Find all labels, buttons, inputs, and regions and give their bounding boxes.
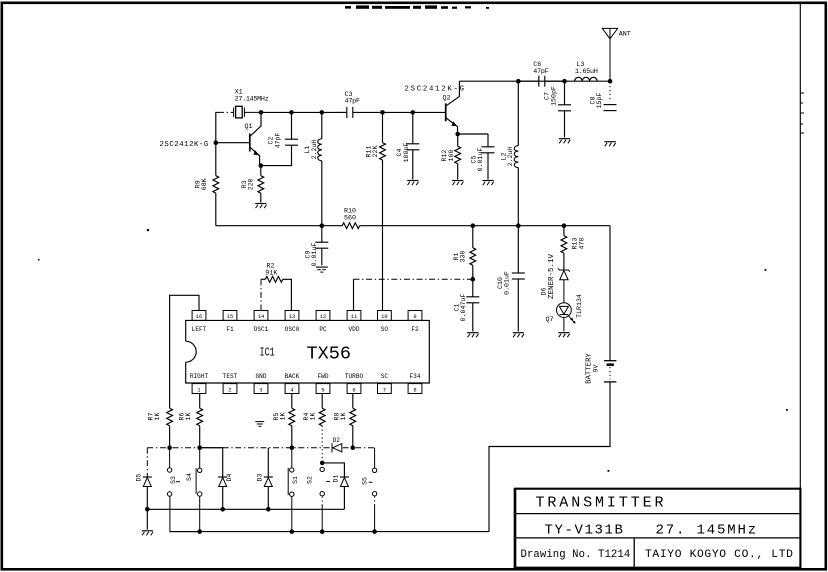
svg-text:150pF: 150pF <box>550 86 557 106</box>
node base of Q1 <box>214 140 219 145</box>
svg-text:2.2uH: 2.2uH <box>311 140 318 160</box>
ground under C1 <box>467 333 478 338</box>
svg-text:9V: 9V <box>592 365 599 373</box>
svg-text:8: 8 <box>413 387 416 393</box>
svg-text:F2: F2 <box>411 326 419 333</box>
svg-text:VDD: VDD <box>349 326 360 333</box>
diode D2 <box>332 443 342 452</box>
svg-text:47pF: 47pF <box>533 68 548 76</box>
svg-text:470: 470 <box>578 238 585 250</box>
svg-text:560: 560 <box>344 214 356 222</box>
node D4 rail <box>220 507 225 512</box>
svg-text:47pF: 47pF <box>345 98 360 106</box>
svg-text:TX56: TX56 <box>307 345 352 365</box>
pin 7 box <box>378 384 392 394</box>
pin 1 box <box>192 384 206 394</box>
resistor R10 <box>342 223 360 229</box>
svg-text:D2: D2 <box>333 437 341 444</box>
capacitor C2 <box>261 112 298 165</box>
switch S1 <box>288 448 294 532</box>
pin 16 box <box>192 311 206 321</box>
wire pin16 LEFT route <box>170 295 199 408</box>
pin 2 box <box>223 384 237 394</box>
wire battery negative rail <box>170 531 489 533</box>
svg-text:1K: 1K <box>154 413 161 421</box>
ground under C4 <box>407 181 418 186</box>
wire supply bus right <box>360 225 610 227</box>
wire R9 top / crystal left riser <box>216 112 219 142</box>
svg-text:7: 7 <box>383 387 386 393</box>
svg-text:OSC1: OSC1 <box>254 326 269 333</box>
svg-text:2SC2412K-G: 2SC2412K-G <box>160 141 209 149</box>
svg-text:TLR134: TLR134 <box>576 294 583 318</box>
svg-text:47pF: 47pF <box>275 133 282 149</box>
svg-text:9: 9 <box>413 314 416 320</box>
IC1 body <box>186 320 430 383</box>
svg-text:0.01uF: 0.01uF <box>504 271 511 295</box>
svg-text:D5: D5 <box>136 474 143 482</box>
pin 13 box <box>285 311 299 321</box>
diode D4 <box>200 448 228 510</box>
node S4 top <box>197 445 202 450</box>
wire top row to Q2 <box>383 111 446 113</box>
switch S5 <box>369 448 377 532</box>
svg-text:TY-V131B: TY-V131B <box>545 523 625 539</box>
svg-text:5: 5 <box>321 387 324 393</box>
node C10 top <box>516 223 521 228</box>
ground under C7 <box>559 139 570 144</box>
wire bus corner to battery <box>609 226 611 361</box>
svg-text:4: 4 <box>290 387 293 393</box>
inductor L3 <box>575 77 598 81</box>
node R13 top <box>562 223 567 228</box>
stray specks <box>38 229 788 518</box>
svg-text:11: 11 <box>351 314 357 320</box>
resistor R1 <box>470 226 476 280</box>
wire top node row <box>261 111 338 113</box>
wire diode common rail <box>147 508 344 510</box>
transistor Q2 <box>446 81 460 134</box>
capacitor C10 <box>512 226 525 332</box>
switch S3 <box>167 448 199 532</box>
pin 15 box <box>223 311 237 321</box>
pin 5 box <box>316 384 330 394</box>
svg-text:IC1: IC1 <box>260 347 275 360</box>
svg-text:D6: D6 <box>541 288 548 296</box>
node L2 top <box>516 79 521 84</box>
margin tick marks right <box>801 93 805 133</box>
node R11 top <box>380 110 385 115</box>
node S3 top <box>167 445 172 450</box>
svg-text:15pF: 15pF <box>596 93 603 109</box>
svg-text:100: 100 <box>448 150 455 162</box>
svg-text:68K: 68K <box>201 178 208 190</box>
ground under C8 <box>604 142 615 147</box>
svg-text:Q7: Q7 <box>546 316 554 324</box>
wire pin4 to R5 <box>291 394 293 409</box>
svg-text:10: 10 <box>381 314 387 320</box>
wire Q2 collector row <box>459 80 610 82</box>
resistor R3 <box>258 166 264 203</box>
wire supply bus <box>216 225 342 227</box>
node S4 bottom <box>197 529 202 534</box>
wire pin6 to R8 <box>352 394 354 409</box>
pin 4 box <box>285 384 299 394</box>
ground under LED Q7 <box>558 333 569 338</box>
battery BATTERY 9V <box>604 361 616 382</box>
svg-text:S2: S2 <box>307 476 314 484</box>
svg-text:27. 145MHz: 27. 145MHz <box>656 523 759 539</box>
svg-text:22K: 22K <box>372 146 379 158</box>
wire base Q1 <box>216 142 250 144</box>
node Q1 emitter <box>259 163 264 168</box>
wire pin2 stub none / pin3 GND mark <box>255 422 264 427</box>
svg-text:220: 220 <box>248 178 255 190</box>
pin 3 box <box>254 384 268 394</box>
svg-text:FWD: FWD <box>318 373 329 380</box>
svg-text:SO: SO <box>381 326 389 333</box>
pin 8 box <box>408 384 422 394</box>
svg-text:1.65uH: 1.65uH <box>575 68 598 76</box>
node R1 top <box>471 223 476 228</box>
resistor R13 <box>561 226 567 270</box>
svg-text:100pF: 100pF <box>403 143 410 163</box>
capacitor C9 <box>315 226 328 266</box>
ground under C9 <box>316 267 328 272</box>
svg-text:2: 2 <box>228 387 231 393</box>
svg-text:16: 16 <box>196 314 202 320</box>
ground under R12 <box>452 181 463 186</box>
svg-text:12: 12 <box>320 314 326 320</box>
node ANT junction <box>608 79 613 84</box>
svg-text:Q2: Q2 <box>443 94 451 102</box>
diode D1 <box>322 463 349 509</box>
node L1 top <box>320 110 325 115</box>
crystal X1 <box>234 106 261 118</box>
svg-text:3: 3 <box>259 387 262 393</box>
resistor R2 <box>261 276 291 310</box>
wire key common dash-dot rail <box>147 447 374 449</box>
svg-text:13: 13 <box>289 314 295 320</box>
svg-text:RIGHT: RIGHT <box>190 373 209 380</box>
node Q2 emitter <box>455 132 460 137</box>
svg-text:F1: F1 <box>226 326 234 333</box>
wire dash-dot to crystal <box>218 111 234 113</box>
wire pin1 to R6 <box>199 394 201 409</box>
diode D5 <box>143 448 152 510</box>
node D5 rail <box>145 507 150 512</box>
antenna ANT <box>602 28 617 81</box>
svg-text:D3: D3 <box>256 474 263 482</box>
svg-text:TAIYO KOGYO CO., LTD: TAIYO KOGYO CO., LTD <box>645 549 794 561</box>
wire VDD riser to pin 11 <box>353 279 355 310</box>
top edge scan artifacts <box>345 5 489 8</box>
pin 10 box <box>378 311 392 321</box>
resistor R6 <box>197 408 203 448</box>
diode D3 <box>264 448 273 510</box>
svg-text:BACK: BACK <box>285 373 300 380</box>
pin 12 box <box>316 311 330 321</box>
svg-text:0.01uF: 0.01uF <box>477 148 484 172</box>
pin 11 box <box>347 311 361 321</box>
svg-text:PC: PC <box>319 326 327 333</box>
transistor Q1 <box>250 112 261 166</box>
svg-text:2.2uH: 2.2uH <box>507 147 514 167</box>
capacitor C5 <box>482 134 495 180</box>
LED Q7 TLR134 <box>557 303 576 332</box>
node C6 right / C7 top <box>562 79 567 84</box>
wire VDD dash-dot rail <box>354 278 473 280</box>
switch S2 <box>320 467 330 531</box>
svg-text:LEFT: LEFT <box>192 326 207 333</box>
ground under C10 <box>513 333 524 338</box>
svg-text:TEST: TEST <box>223 373 238 380</box>
svg-text:F34: F34 <box>410 373 421 380</box>
svg-text:1: 1 <box>197 387 200 393</box>
node S2 top <box>320 461 325 466</box>
svg-text:S5: S5 <box>361 477 368 485</box>
node S5 bottom <box>372 529 377 534</box>
inner margin line right <box>799 3 801 569</box>
node VDD rail <box>471 277 476 282</box>
wire pin5 to R4 <box>321 394 323 409</box>
wire D5 to ground <box>146 509 148 529</box>
svg-text:SC: SC <box>381 373 389 380</box>
svg-text:1K: 1K <box>340 413 347 421</box>
pin 9 box <box>408 311 422 321</box>
inductor L2 <box>514 81 518 226</box>
ground under C5 <box>482 181 493 186</box>
svg-text:S1: S1 <box>292 476 299 484</box>
svg-text:1K: 1K <box>185 413 192 421</box>
node S1 top <box>290 445 295 450</box>
resistor R4 <box>319 408 325 463</box>
node Q1 collector <box>259 110 264 115</box>
capacitor C6 <box>518 76 564 87</box>
node C9 top <box>320 223 325 228</box>
svg-text:OSC0: OSC0 <box>285 326 300 333</box>
node S2 bottom <box>320 529 325 534</box>
svg-text:15: 15 <box>227 314 233 320</box>
resistor R12 <box>455 134 461 180</box>
svg-text:Q1: Q1 <box>245 123 253 131</box>
resistor R8 <box>350 408 356 448</box>
svg-text:2SC2412K-G: 2SC2412K-G <box>405 85 466 93</box>
svg-text:6: 6 <box>352 387 355 393</box>
svg-text:GND: GND <box>256 373 267 380</box>
svg-text:0.047uF: 0.047uF <box>460 294 467 322</box>
svg-text:ZENER-5.1V: ZENER-5.1V <box>548 253 556 299</box>
capacitor C3 <box>338 107 383 118</box>
resistor R7 <box>167 408 173 448</box>
pin 6 box <box>347 384 361 394</box>
wire pin14 OSC1 dash-dot from R2 <box>260 279 262 310</box>
svg-text:14: 14 <box>258 314 264 320</box>
svg-text:1K: 1K <box>309 413 316 421</box>
node D3 rail <box>266 507 271 512</box>
svg-text:S4: S4 <box>186 473 193 481</box>
ground bottom left <box>142 531 153 536</box>
switch S4 <box>196 448 202 532</box>
capacitor C1 <box>466 279 479 331</box>
resistor R9 <box>213 143 219 226</box>
svg-text:TRANSMITTER: TRANSMITTER <box>536 494 667 511</box>
wire battery negative return <box>489 382 610 532</box>
svg-text:ANT: ANT <box>619 30 631 38</box>
svg-text:S3: S3 <box>170 476 177 484</box>
svg-text:0.01uF: 0.01uF <box>311 243 318 267</box>
svg-text:330: 330 <box>460 251 467 263</box>
svg-text:D1: D1 <box>333 475 340 483</box>
ground under R3 <box>255 204 266 209</box>
resistor R5 <box>289 408 295 448</box>
zener diode D6 <box>558 268 570 302</box>
resistor R11 <box>380 112 386 310</box>
svg-text:1K: 1K <box>279 413 286 421</box>
svg-text:D4: D4 <box>226 474 233 482</box>
pin 14 box <box>254 311 268 321</box>
node S1 bottom <box>290 529 295 534</box>
node C4 top <box>411 110 416 115</box>
capacitor C8 <box>604 86 617 111</box>
node R8 bottom <box>351 445 356 450</box>
capacitor C4 <box>406 112 419 179</box>
svg-text:27.145MHz: 27.145MHz <box>235 96 269 104</box>
wire emitter to C5 <box>458 133 488 135</box>
svg-text:Drawing No. T1214: Drawing No. T1214 <box>521 549 631 561</box>
svg-text:91K: 91K <box>265 269 277 277</box>
svg-text:TURBO: TURBO <box>345 373 364 380</box>
capacitor C7 <box>558 81 571 137</box>
inductor L1 <box>318 112 322 225</box>
node C2 top <box>289 110 294 115</box>
